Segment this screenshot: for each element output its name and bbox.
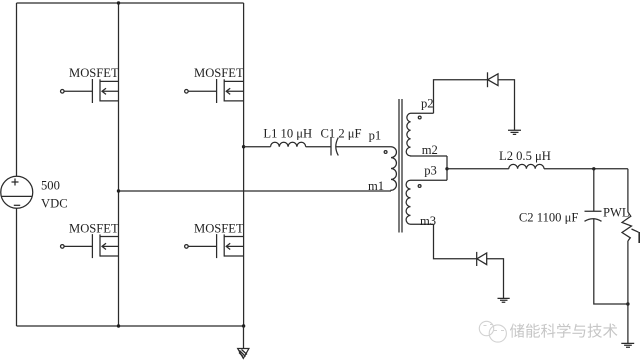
svg-text:C1 2 μF: C1 2 μF <box>321 127 362 141</box>
transistor Q3 MOSFET bottom-left <box>61 234 119 258</box>
node C2 branch junction <box>592 167 595 170</box>
transistor Q2 MOSFET top-right <box>185 79 244 103</box>
wire right tap to L1 <box>244 146 271 148</box>
node center tap junction <box>445 167 448 170</box>
transistor Q1 MOSFET top-left <box>61 79 119 103</box>
ground bottom center hatched triangle <box>238 349 249 359</box>
wire L2 to output node <box>544 168 628 170</box>
node m1 tap junction <box>117 189 120 192</box>
svg-text:m1: m1 <box>368 179 384 193</box>
wire PWL arrow mark <box>632 229 639 232</box>
wire C2 branch lower <box>594 218 628 304</box>
diode D1 top <box>487 72 489 87</box>
svg-text:500: 500 <box>41 179 60 193</box>
node bottom rail right junction <box>242 324 245 327</box>
wire D2 to ground <box>487 259 504 299</box>
wire m3 down to diode branch <box>434 224 477 259</box>
capacitor C2 <box>585 210 602 212</box>
diode D2 bottom <box>476 252 478 266</box>
wire left bridge leg <box>118 3 120 326</box>
wire C2 branch upper <box>593 169 595 212</box>
inductor L2 <box>509 164 544 168</box>
transformer core <box>399 99 402 233</box>
svg-text:p2: p2 <box>421 97 434 111</box>
node primary polarity dot <box>384 151 387 154</box>
wire PWL branch lower <box>627 241 629 343</box>
node top rail junction <box>117 1 120 4</box>
svg-text:MOSFET: MOSFET <box>194 66 244 80</box>
watermark text <box>510 323 618 337</box>
node bottom rail left junction <box>117 324 120 327</box>
svg-text:m3: m3 <box>420 214 436 228</box>
transistor Q4 MOSFET bottom-right <box>185 234 244 258</box>
node secondary top polarity dot <box>418 116 421 119</box>
svg-text:MOSFET: MOSFET <box>194 221 244 235</box>
wire C1 to primary p1 <box>336 146 391 148</box>
transformer primary winding p1-m1 <box>391 147 396 191</box>
node secondary bottom polarity dot <box>418 185 421 188</box>
wire ground stub bottom center <box>243 326 245 348</box>
svg-text:C2 1100 μF: C2 1100 μF <box>519 211 578 225</box>
transformer secondary winding p2-m2 <box>406 113 447 156</box>
wire D1 to ground <box>498 80 515 131</box>
svg-text:VDC: VDC <box>41 197 68 211</box>
wire left rail lower <box>16 208 18 326</box>
ground bottom right <box>621 343 634 347</box>
svg-text:p1: p1 <box>369 129 382 143</box>
wire L1 to C1 <box>306 146 331 148</box>
watermark logo <box>479 321 506 342</box>
capacitor C1 <box>330 138 332 156</box>
svg-text:MOSFET: MOSFET <box>69 221 119 235</box>
wire left rail upper <box>16 3 18 176</box>
inductor L1 <box>271 142 306 146</box>
wire right bridge leg <box>243 3 245 326</box>
node bottom right junction <box>626 302 629 305</box>
wire m1 mid tap to primary <box>119 190 392 192</box>
wire center tap to L2 <box>447 168 509 170</box>
svg-text:L2 0.5 μH: L2 0.5 μH <box>499 149 551 163</box>
wire bottom rail <box>17 325 244 327</box>
wire PWL branch upper <box>627 169 629 212</box>
wire p2 up to diode branch <box>434 80 488 114</box>
ground below D2 <box>498 298 510 302</box>
wire top rail <box>17 2 244 4</box>
svg-text:L1 10 μH: L1 10 μH <box>263 127 312 141</box>
node right leg tap junction <box>242 145 245 148</box>
voltage source V1 500 VDC <box>1 176 33 208</box>
wire edge bar <box>638 232 640 243</box>
svg-text:m2: m2 <box>422 143 438 157</box>
ground below D1 <box>508 130 521 134</box>
svg-text:PWL: PWL <box>603 206 630 220</box>
svg-text:p3: p3 <box>424 164 437 178</box>
svg-text:MOSFET: MOSFET <box>69 66 119 80</box>
wire m2 to p3 center tap <box>446 156 448 180</box>
resistor PWL <box>622 212 632 241</box>
transformer secondary winding p3-m3 <box>406 180 447 224</box>
